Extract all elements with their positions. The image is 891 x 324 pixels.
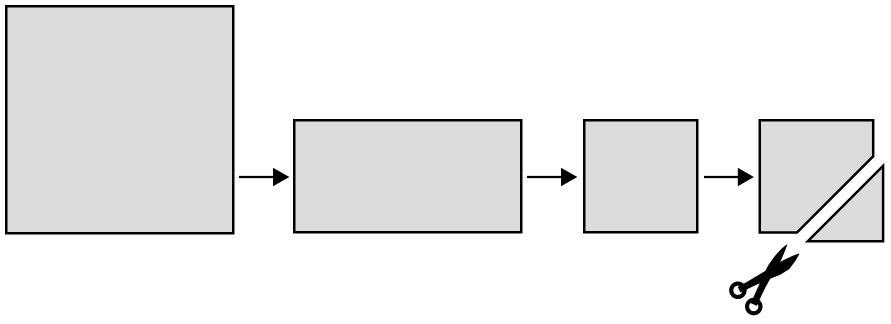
scissors xyxy=(728,237,807,316)
scissors bar B (upper handle to upper-left blade tip) xyxy=(739,244,803,308)
block 4 cut-off triangle piece xyxy=(808,166,883,241)
arrow 3 xyxy=(704,168,754,187)
arrow 2 xyxy=(527,168,577,187)
scissors ring handle upper xyxy=(728,281,747,300)
block 1 (large square) xyxy=(6,6,233,233)
block 2 (wide rectangle) xyxy=(294,120,521,232)
scissors bar A (lower handle to upper-right blade tip) xyxy=(736,240,802,306)
arrow 1 xyxy=(239,168,289,187)
block 4 main piece (square with corner cut away) xyxy=(760,120,873,232)
scissors ring handle lower xyxy=(744,297,763,316)
block 3 (small square) xyxy=(584,120,697,232)
